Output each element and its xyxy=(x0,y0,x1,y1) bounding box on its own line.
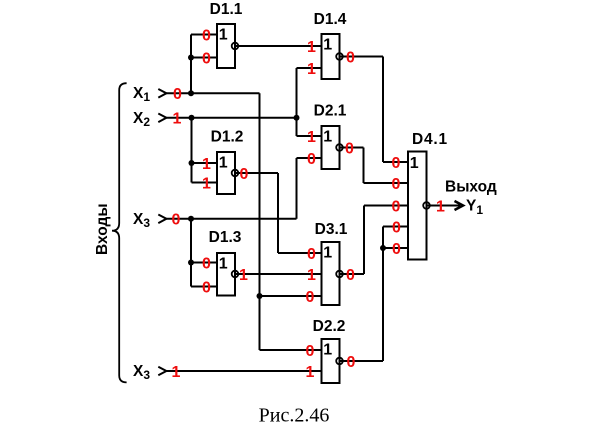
wire D1.3 input1 xyxy=(191,262,217,264)
junction dot X2 branch xyxy=(294,115,300,121)
svg-text:D1.1: D1.1 xyxy=(210,1,243,18)
node: X1 input arrow xyxy=(158,89,166,98)
wire D1.3 input2 xyxy=(191,286,217,288)
wire to D4.1 input4 xyxy=(383,226,408,228)
gate D1.4 body xyxy=(322,34,340,79)
junction dot X3 xyxy=(188,216,194,222)
svg-text:0: 0 xyxy=(392,219,401,236)
wire X3 up to D2.1 xyxy=(296,158,298,219)
svg-text:0: 0 xyxy=(240,166,249,183)
svg-text:0: 0 xyxy=(202,50,211,67)
junction dot D3.1 input3 xyxy=(257,293,263,299)
gate D4.1 body xyxy=(408,152,427,260)
wire D1.1 input1 xyxy=(191,34,217,36)
svg-text:0: 0 xyxy=(392,155,401,172)
svg-text:D2.1: D2.1 xyxy=(314,103,347,120)
wire D1.2 output horizontal xyxy=(235,172,278,174)
wire D1.1 output to D1.4 input1 xyxy=(235,45,322,47)
gate D3.1 body xyxy=(322,242,340,305)
svg-text:1: 1 xyxy=(323,342,332,359)
inverter circle D1.2 xyxy=(232,170,239,177)
svg-text:1: 1 xyxy=(239,267,248,284)
wire D3.1 output horizontal xyxy=(340,273,365,275)
wire to D4.1 input2 xyxy=(364,182,409,184)
gate D1.1 body xyxy=(217,24,235,68)
wire D2.1 output vertical xyxy=(363,148,365,184)
svg-text:1: 1 xyxy=(172,364,181,381)
gate D2.1 body xyxy=(322,126,340,169)
svg-text:0: 0 xyxy=(172,212,181,229)
svg-text:D1.3: D1.3 xyxy=(209,229,242,246)
node: X2 input arrow xyxy=(158,114,166,123)
junction dot D1.3 input1 xyxy=(188,260,194,266)
inverter circle D4.1 xyxy=(423,202,430,209)
svg-text:1: 1 xyxy=(307,129,316,146)
wire D1.4 output vertical xyxy=(382,57,384,163)
svg-text:0: 0 xyxy=(346,49,355,66)
svg-text:1: 1 xyxy=(219,256,228,273)
brace for inputs xyxy=(112,83,127,382)
wire to D4.1 input3 xyxy=(364,205,408,207)
junction dot D1.2 input1 xyxy=(189,160,195,166)
svg-text:1: 1 xyxy=(306,364,315,381)
junction dot D1.1 input2 xyxy=(188,55,194,61)
wire to D4.1 input5 xyxy=(383,247,408,249)
svg-text:1: 1 xyxy=(202,156,211,173)
svg-text:0: 0 xyxy=(392,198,401,215)
svg-text:D1.2: D1.2 xyxy=(211,129,244,146)
wire X2 tap down to D1.2 xyxy=(191,118,193,183)
svg-text:Рис.2.46: Рис.2.46 xyxy=(259,405,330,425)
wire D3.1 output vertical xyxy=(363,206,365,275)
svg-text:1: 1 xyxy=(436,198,445,215)
gate D2.2 body xyxy=(322,339,340,383)
svg-text:1: 1 xyxy=(307,61,316,78)
inverter circle D2.1 xyxy=(336,144,343,151)
wire D4.1 output xyxy=(427,205,461,207)
svg-text:Входы: Входы xyxy=(94,203,111,255)
wire X1 to D3.1 input3 xyxy=(260,295,322,297)
svg-text:1: 1 xyxy=(323,37,332,54)
wire X1 to D2.2 input1 xyxy=(260,349,322,351)
wire X1 horizontal xyxy=(167,92,260,94)
svg-text:1: 1 xyxy=(202,175,211,192)
wire X3 bottom horizontal xyxy=(167,370,322,372)
svg-text:1: 1 xyxy=(410,155,419,172)
svg-text:0: 0 xyxy=(306,289,315,306)
wire D1.2 output vertical xyxy=(277,173,279,253)
gate D1.3 body xyxy=(217,253,235,296)
svg-text:1: 1 xyxy=(173,111,182,128)
wire X1 vertical xyxy=(259,93,261,350)
svg-text:0: 0 xyxy=(347,354,356,371)
svg-text:0: 0 xyxy=(307,246,316,263)
svg-text:0: 0 xyxy=(392,241,401,258)
wire D1.3 output to D3.1 input2 xyxy=(235,273,322,275)
svg-text:1: 1 xyxy=(307,267,316,284)
svg-text:D3.1: D3.1 xyxy=(315,221,348,238)
wire X3 tap down to D1.3 xyxy=(190,219,192,287)
wire X3 top horizontal xyxy=(167,218,297,220)
svg-text:0: 0 xyxy=(345,140,354,157)
wire D1.2 input1 xyxy=(192,162,218,164)
node: X3 top input arrow xyxy=(158,215,166,224)
wire D1.1 input2 xyxy=(191,57,217,59)
wire D1.2 input2 xyxy=(192,182,218,184)
wire to D4.1 input1 xyxy=(383,161,408,163)
wire D2.1 output horizontal xyxy=(340,147,364,149)
svg-text:1: 1 xyxy=(219,27,228,44)
wire D2.2 output horizontal xyxy=(340,360,384,362)
svg-text:1: 1 xyxy=(219,155,228,172)
wire D1.4 input2 xyxy=(297,67,322,69)
wire D2.1 input2 xyxy=(297,157,322,159)
svg-text:0: 0 xyxy=(202,279,211,296)
svg-text:0: 0 xyxy=(392,176,401,193)
junction dot X1 xyxy=(188,90,194,96)
wire D1.1 input tap vertical xyxy=(190,35,192,94)
inverter circle D2.2 xyxy=(336,358,343,365)
svg-text:0: 0 xyxy=(306,343,315,360)
svg-text:0: 0 xyxy=(346,267,355,284)
wire D2.2 output vertical xyxy=(382,227,384,362)
junction dot D4.1 input5 xyxy=(380,245,386,251)
svg-text:D4.1: D4.1 xyxy=(412,131,448,148)
inverter circle D3.1 xyxy=(336,271,343,278)
wire X2 horizontal xyxy=(167,117,297,119)
output arrowhead Y1 xyxy=(455,201,464,210)
wire to D3.1 input1 xyxy=(278,252,322,254)
svg-text:Выход: Выход xyxy=(445,179,497,196)
svg-text:0: 0 xyxy=(202,27,211,44)
svg-text:D2.2: D2.2 xyxy=(313,318,346,335)
inverter circle D1.1 xyxy=(232,43,239,50)
inverter circle D1.3 xyxy=(232,271,239,278)
node: X3 bottom input arrow xyxy=(158,367,166,376)
wire D2.1 input1 xyxy=(297,135,322,137)
gate D1.2 body xyxy=(217,152,235,194)
wire D1.4 output horizontal xyxy=(340,56,384,58)
svg-text:D1.4: D1.4 xyxy=(314,11,347,28)
svg-text:0: 0 xyxy=(307,151,316,168)
svg-text:0: 0 xyxy=(173,86,182,103)
inverter circle D1.4 xyxy=(336,53,343,60)
svg-text:1: 1 xyxy=(323,129,332,146)
svg-text:1: 1 xyxy=(323,245,332,262)
wire X2 vertical branch xyxy=(296,68,298,136)
svg-text:0: 0 xyxy=(202,255,211,272)
svg-text:1: 1 xyxy=(307,39,316,56)
junction dot X2 xyxy=(189,115,195,121)
